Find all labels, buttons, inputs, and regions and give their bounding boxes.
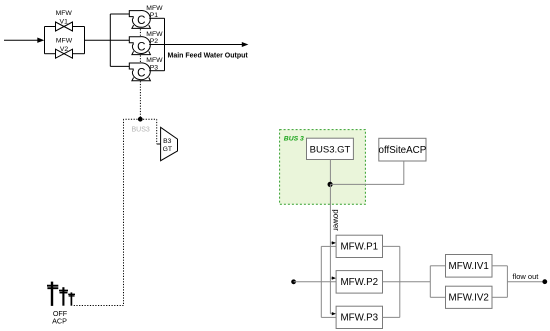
utility pole 2 — [59, 287, 68, 306]
pump MFW P3 — [129, 63, 150, 81]
wire: input to MFW.P2 — [294, 281, 337, 283]
svg-text:B3: B3 — [163, 138, 172, 145]
wire: valve branch right riser — [84, 27, 86, 54]
wire: into MFW.IV2 — [430, 296, 445, 298]
label MFW P3 — [146, 57, 163, 71]
green region BUS 3 — [280, 130, 366, 205]
wire: top branch to valve V1 — [45, 26, 56, 28]
valve MFW V1 — [56, 22, 73, 31]
svg-text:MFW: MFW — [146, 5, 163, 12]
svg-text:flow out: flow out — [513, 272, 540, 281]
utility pole 3 — [68, 292, 75, 305]
wire: valve branch left riser — [44, 27, 46, 54]
wire: MFW.IV2 out — [492, 296, 507, 298]
svg-text:BUS3.GT: BUS3.GT — [310, 144, 351, 155]
pump MFW P2 — [129, 37, 150, 55]
generator B3 GT — [161, 127, 178, 160]
block MFW.IV1 — [446, 255, 493, 278]
block MFW.P1 — [336, 235, 382, 257]
svg-text:offSiteACP: offSiteACP — [379, 145, 427, 156]
svg-text:MFW: MFW — [146, 31, 163, 38]
wire: feed water input arrow — [4, 38, 44, 43]
label OFF ACP — [52, 309, 68, 326]
valve MFW V2 — [56, 49, 73, 58]
wire: left IV bus — [429, 266, 431, 298]
wire: flow into MFW.P1 — [321, 245, 336, 247]
svg-text:MFW.IV2: MFW.IV2 — [449, 293, 489, 304]
wire: right pump-block bus — [399, 246, 401, 317]
wire: power line down — [329, 184, 331, 313]
block BUS3.GT — [307, 138, 354, 159]
svg-text:V1: V1 — [60, 19, 69, 26]
wire: dotted horizontal to off-site poles — [73, 305, 124, 307]
wire: main feed water output arrow — [149, 42, 248, 47]
node: BUS3 junction — [138, 117, 143, 122]
wire: dotted link pump P2 to P3 — [139, 55, 141, 63]
block MFW.P3 — [336, 306, 382, 328]
wire: dotted link pump P3 to BUS3 junction — [139, 81, 141, 119]
wire: MFW.P1 out — [383, 245, 400, 247]
wire: left flow bus — [320, 246, 322, 317]
pump MFW P1 — [129, 10, 150, 28]
wire: right IV bus — [506, 266, 508, 298]
wire: BUS3.GT to junction — [329, 160, 331, 185]
wire: junction to offSiteACP — [330, 161, 403, 184]
wire: power arrow into MFW.P2 — [330, 276, 336, 279]
node: flow out dot — [542, 279, 547, 284]
wire: valve V1 to rejoin — [73, 26, 85, 28]
label MFW V1 — [56, 10, 73, 25]
svg-text:GT: GT — [163, 146, 172, 153]
utility pole 1 — [47, 282, 58, 306]
wire: into MFW.IV1 — [430, 265, 445, 267]
wire: MFW.P3 out — [383, 316, 400, 318]
wire: MFW.IV1 out — [492, 265, 507, 267]
wire: MFW.P2 out to IV bus — [383, 281, 431, 283]
svg-text:BUS3: BUS3 — [132, 127, 150, 134]
node: flow input dot — [291, 279, 296, 284]
wire: valve V2 to rejoin — [73, 53, 85, 55]
svg-text:MFW.P2: MFW.P2 — [341, 277, 379, 288]
label B3 GT — [163, 138, 172, 153]
block MFW.P2 — [336, 271, 382, 294]
wire: dotted BUS3 junction to left — [124, 118, 138, 120]
svg-text:MFW: MFW — [56, 10, 73, 17]
svg-text:ACP: ACP — [52, 317, 67, 326]
svg-text:Main Feed Water Output: Main Feed Water Output — [168, 52, 249, 59]
wire: flow into MFW.P3 — [321, 316, 336, 318]
wire: right pump bus — [164, 18, 166, 70]
wire: power arrow into MFW.P1 — [330, 241, 336, 244]
label MFW V2 — [56, 38, 73, 53]
svg-text:BUS 3: BUS 3 — [284, 135, 304, 142]
svg-text:MFW.IV1: MFW.IV1 — [449, 261, 489, 272]
label MFW P1 — [146, 5, 163, 19]
wire: branch to pump P1 inlet — [110, 13, 129, 15]
svg-text:power: power — [332, 209, 341, 231]
svg-text:MFW.P3: MFW.P3 — [341, 313, 379, 324]
svg-text:MFW: MFW — [56, 38, 73, 45]
block MFW.IV2 — [446, 286, 493, 308]
node: power junction — [328, 182, 333, 187]
block offSiteACP — [379, 138, 427, 161]
wire: bottom branch to valve V2 — [45, 53, 56, 55]
wire: dotted BUS3 junction to right — [143, 118, 157, 120]
wire: dotted down to B3 GT — [156, 119, 158, 144]
wire: flow out line — [507, 281, 544, 283]
wire: pump P1 outlet — [149, 17, 164, 19]
wire: power arrow into MFW.P3 — [330, 312, 336, 315]
wire: dotted vertical down to ACP — [123, 119, 125, 305]
svg-text:V2: V2 — [60, 46, 69, 53]
wire: left pump bus — [109, 14, 111, 66]
label MFW P2 — [146, 31, 163, 45]
svg-text:MFW: MFW — [146, 57, 163, 64]
wire: dotted link pump P1 to P2 — [139, 29, 141, 37]
svg-text:MFW.P1: MFW.P1 — [341, 242, 379, 253]
wire: main line valve rejoin to pump P2 inlet — [85, 39, 130, 41]
wire: tick into B3 GT — [157, 143, 161, 145]
wire: branch to pump P3 inlet — [110, 65, 129, 67]
wire: pump P3 outlet — [149, 70, 164, 72]
